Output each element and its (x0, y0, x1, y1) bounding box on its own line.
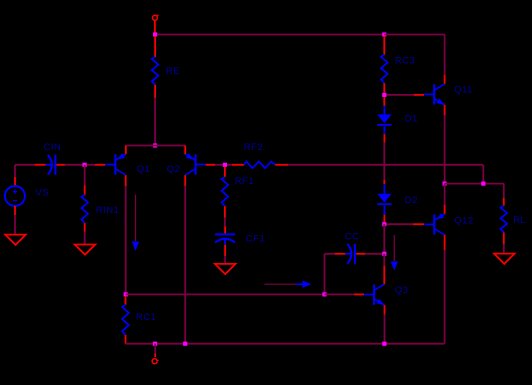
node output/RL junction (481, 182, 485, 186)
svg-text:RE: RE (166, 66, 180, 77)
node top-rail/RC3 junction (382, 32, 386, 36)
resistor RC1 (122, 296, 129, 344)
wire D1 to D2 (383, 143, 385, 180)
node Q11/Q12 emitter junction (443, 182, 447, 186)
wire input node down (84, 165, 86, 186)
node bottom-rail/terminal junction (153, 342, 157, 346)
wire VS to ground (14, 215, 16, 235)
wire RIN1 to ground (84, 232, 86, 245)
svg-text:Q3: Q3 (395, 285, 409, 296)
label RF1 (235, 176, 254, 187)
svg-text:D2: D2 (405, 195, 418, 206)
wire terminal to top rail (154, 20, 156, 33)
svg-text:RC1: RC1 (136, 312, 157, 323)
resistor RF1 (222, 167, 229, 218)
wire top rail (157, 34, 384, 36)
wire Q1 emitter lead (125, 146, 127, 155)
wire D2 node down to CC node (383, 224, 385, 254)
capacitor CIN (35, 155, 65, 175)
wire Q12 collector lead (444, 235, 446, 250)
ground below RL (494, 254, 515, 264)
wire Q1 collector lead (125, 175, 127, 186)
terminal VCC top (152, 15, 158, 20)
wire Q3 collector lead (383, 254, 385, 284)
node Q2 base / RF junction (223, 163, 227, 167)
wire node to Q3 base (325, 293, 365, 295)
label RL (513, 215, 526, 226)
ground below RIN1 (75, 245, 96, 255)
label RE (166, 66, 180, 77)
wire VS corner to CIN (15, 164, 35, 166)
wire CC left branch vertical (324, 254, 326, 295)
svg-text:CF1: CF1 (246, 233, 265, 244)
node input junction (83, 163, 87, 167)
wire emitter rail (125, 145, 185, 147)
node bottom-rail/Q3-emitter junction (382, 342, 386, 346)
current arrow Q3 collector (391, 235, 398, 271)
wire Q2 base pin (206, 164, 223, 166)
resistor RC3 (381, 36, 388, 93)
transistor Q3 (364, 284, 385, 305)
node bottom-rail/Q2-collector junction (183, 342, 187, 346)
svg-text:CC: CC (345, 232, 360, 243)
wire Q2 emitter lead (184, 146, 186, 155)
wire CC left branch horizontal (325, 253, 336, 255)
node emitter rail junction (153, 143, 157, 147)
ground below VS (5, 235, 26, 245)
label CC (345, 232, 360, 243)
transistor Q1 (105, 153, 125, 175)
svg-text:VS: VS (36, 188, 50, 199)
capacitor CF1 (215, 226, 235, 256)
wire VS branch corner (14, 165, 16, 177)
wire Q11 emitter down (444, 115, 446, 184)
wire Q3 base net (126, 293, 325, 295)
label CIN (44, 142, 62, 153)
wire Q11 collector lead (444, 75, 446, 84)
diode D1 (377, 97, 391, 143)
label CF1 (246, 233, 265, 244)
wire bottom rail (126, 343, 445, 345)
wire CF1 to ground (224, 256, 226, 264)
label RF2 (244, 142, 263, 153)
capacitor CC (335, 244, 365, 264)
svg-text:Q2: Q2 (167, 164, 181, 175)
node D2/Q12-base junction (382, 222, 386, 226)
ground below CF1 (215, 264, 236, 274)
svg-text:RF2: RF2 (244, 142, 263, 153)
node Q1-collector/RC1 junction (124, 292, 128, 296)
svg-text:Q11: Q11 (454, 85, 473, 96)
wire node to Q11 base (387, 94, 425, 96)
wire Q12 emitter lead (444, 184, 446, 214)
wire top rail right segment (384, 34, 444, 36)
svg-text:D1: D1 (405, 114, 418, 125)
wire Q2 collector down to bottom rail (184, 186, 186, 344)
wire RE to emitter rail (154, 98, 156, 146)
wire Q11 emitter lead (444, 105, 446, 115)
wire Q2 collector lead (184, 175, 186, 186)
label Q1 (137, 164, 151, 175)
label Q11 (454, 85, 473, 96)
label D1 (405, 114, 418, 125)
node CC/Q3-collector junction (382, 252, 386, 256)
resistor RF2 (227, 162, 288, 169)
wire node to Q12 base (387, 223, 425, 225)
svg-text:Q12: Q12 (454, 216, 473, 227)
terminal VEE bottom (152, 359, 159, 364)
wire Q3 emitter lead (384, 305, 386, 315)
transistor Q11 (424, 84, 445, 105)
node top-rail/RE junction (153, 32, 157, 36)
label RC1 (136, 312, 157, 323)
resistor RE (152, 36, 159, 98)
resistor RIN1 (81, 185, 88, 231)
resistor RL (501, 184, 508, 244)
svg-text:RL: RL (513, 215, 526, 226)
svg-text:Q1: Q1 (137, 164, 151, 175)
wire Q11 collector drop (444, 35, 446, 75)
wire RL to ground (503, 244, 505, 254)
label D2 (405, 195, 418, 206)
current arrow Q1 collector (132, 195, 139, 252)
node CC/Q3-base junction (322, 292, 326, 296)
svg-text:RC3: RC3 (395, 56, 416, 67)
source VS (5, 177, 25, 215)
label VS (36, 188, 50, 199)
svg-text:RF1: RF1 (235, 176, 254, 187)
transistor Q12 (424, 213, 444, 235)
current arrow Q3 base (264, 281, 311, 288)
node RC3/D1/Q11 junction (382, 93, 386, 97)
label RC3 (395, 56, 416, 67)
svg-text:RIN1: RIN1 (96, 205, 120, 216)
wire Q1 collector down (125, 186, 127, 294)
wire terminal lead (154, 344, 156, 357)
transistor Q2 (185, 153, 205, 175)
label Q12 (454, 216, 473, 227)
label Q2 (167, 164, 181, 175)
wire Q12 collector down to bottom rail (444, 250, 446, 344)
wire RF1 to CF1 (224, 218, 226, 227)
wire output node horizontal (445, 183, 504, 185)
wire CIN to input node (65, 164, 85, 166)
wire RF2 to output corner (288, 164, 483, 166)
wire input node to Q1 base (87, 164, 106, 166)
wire CC to collector node (365, 253, 382, 255)
wire Q3 emitter to bottom rail (384, 315, 386, 344)
label RIN1 (96, 205, 120, 216)
diode D2 (377, 180, 391, 222)
svg-text:CIN: CIN (44, 142, 62, 153)
wire output corner down (482, 165, 484, 184)
label Q3 (395, 285, 409, 296)
